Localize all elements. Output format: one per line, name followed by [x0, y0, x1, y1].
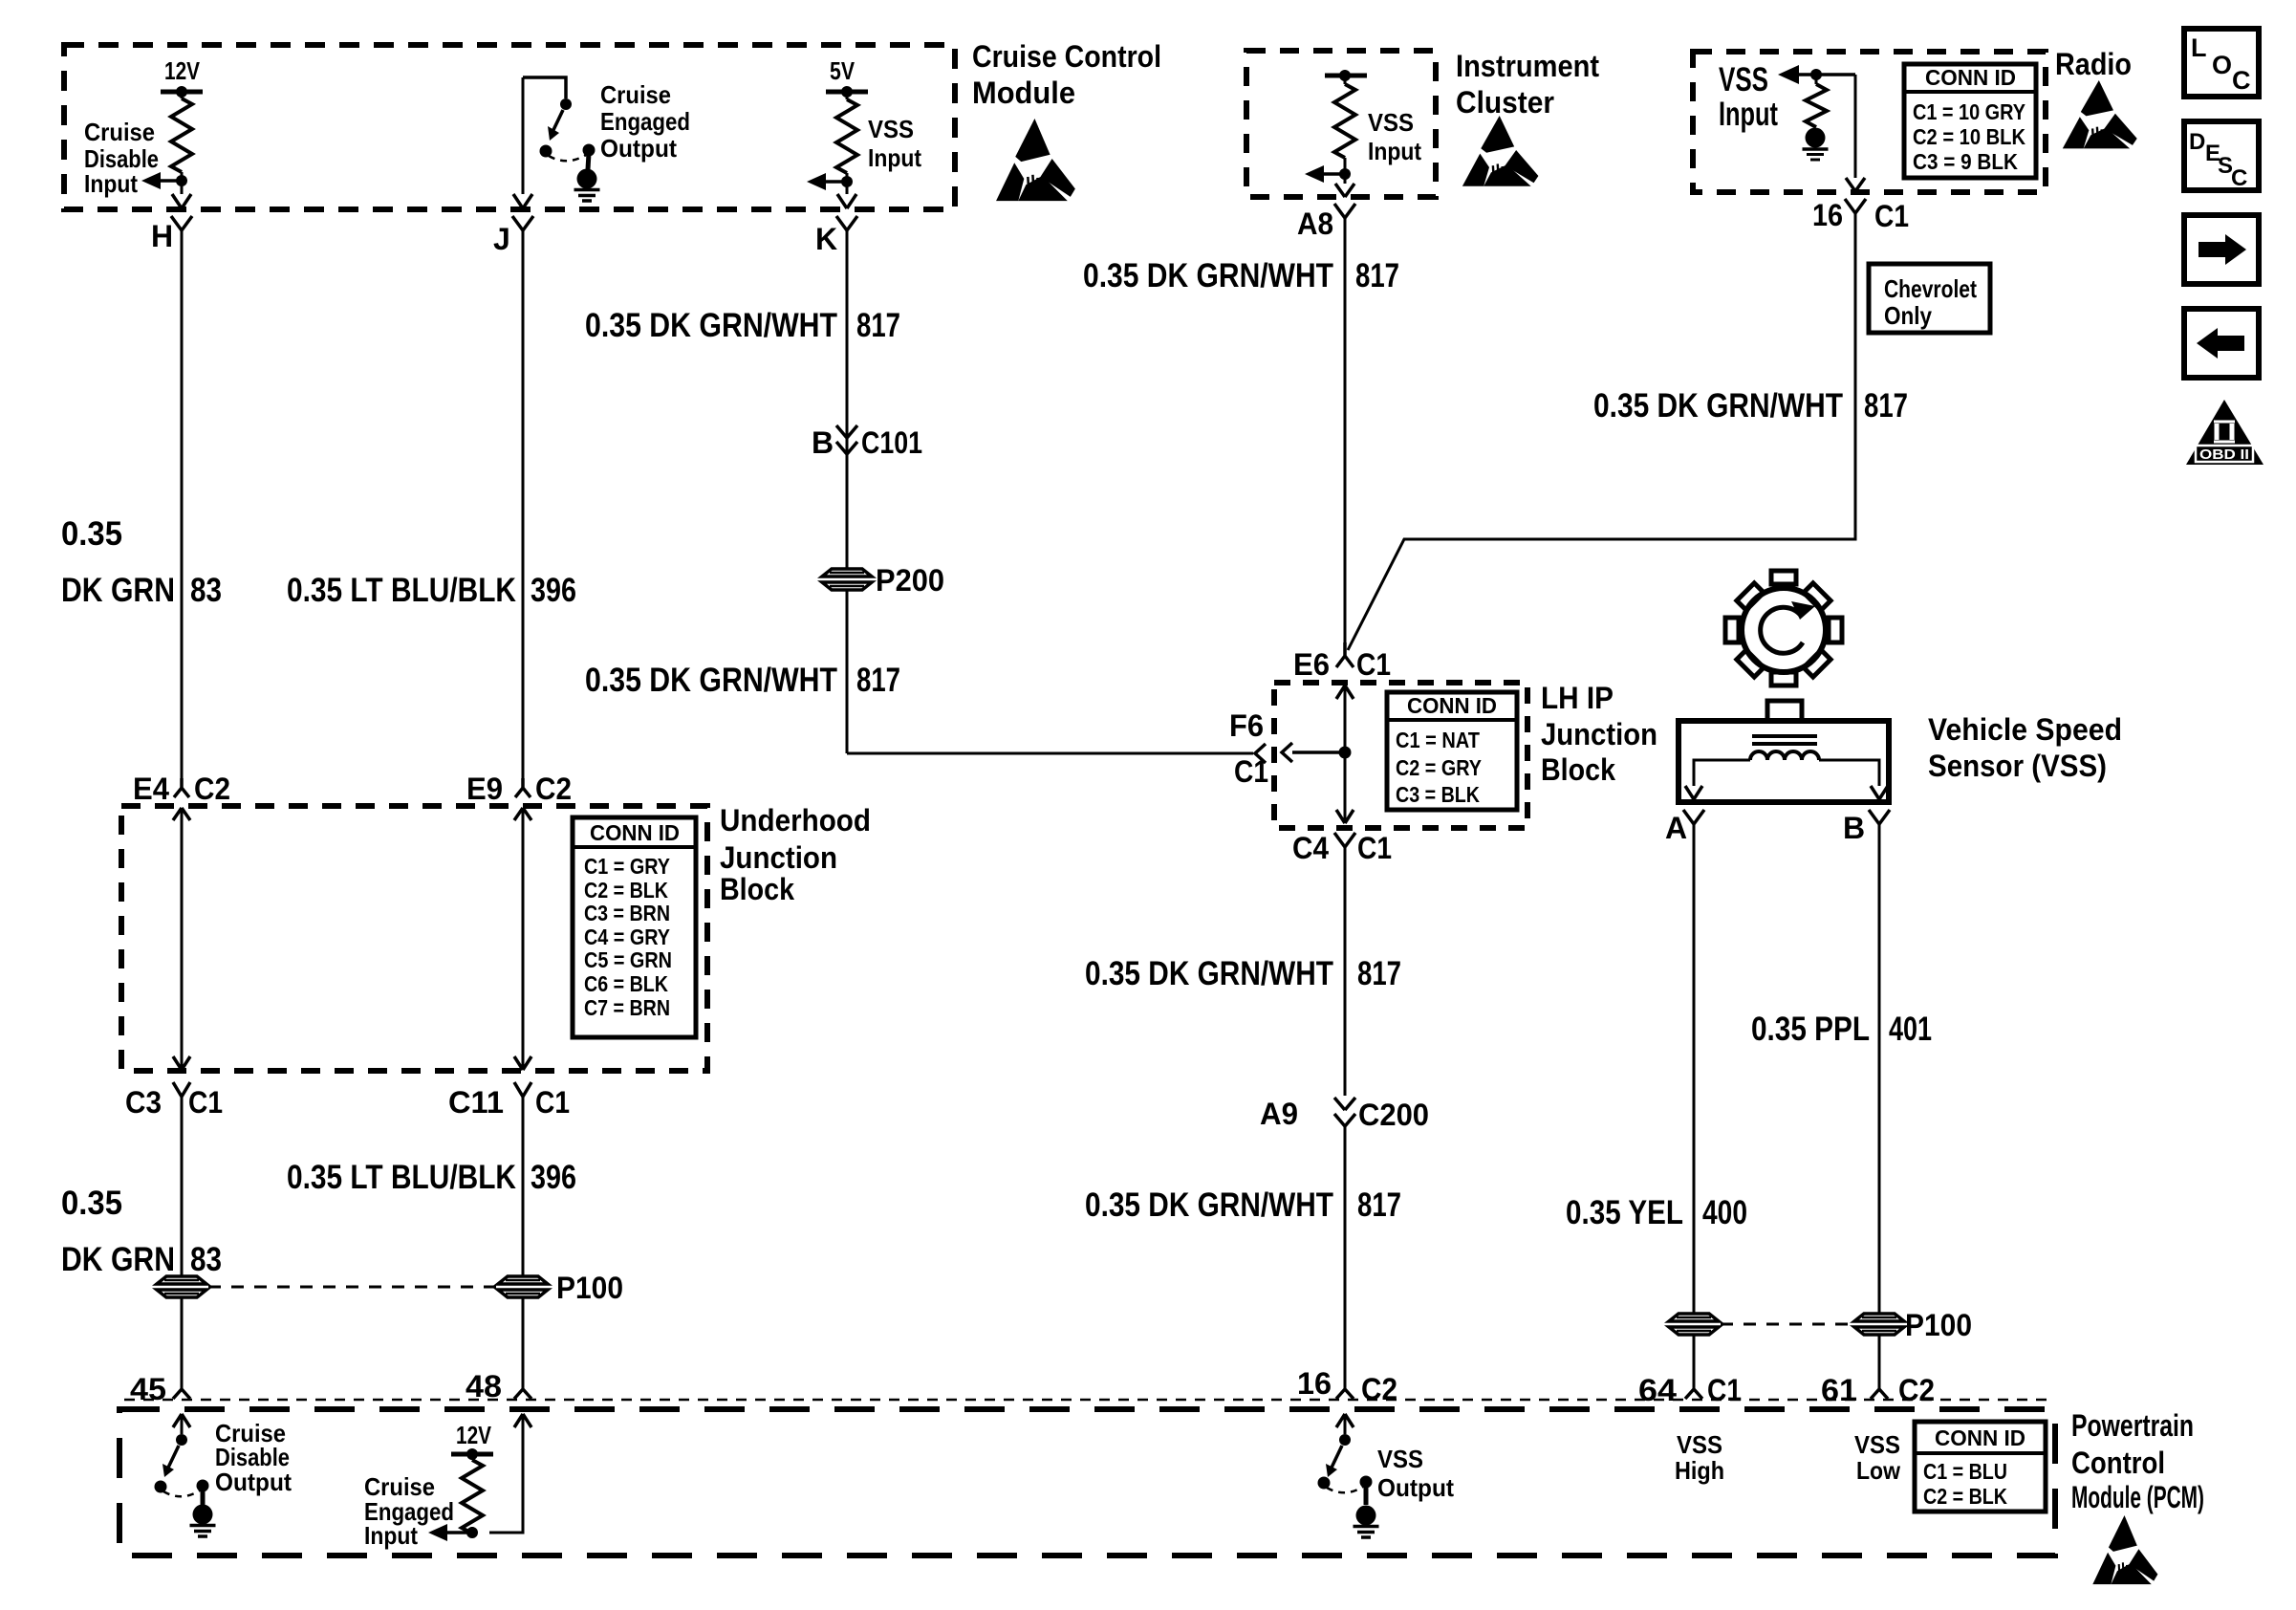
pin A8 exit arrow	[1335, 184, 1354, 197]
table CONN ID radio	[1904, 64, 2036, 178]
table CONN ID PCM	[1915, 1422, 2046, 1512]
splice P100 on B wire	[1854, 1308, 1972, 1342]
svg-text:0.35: 0.35	[61, 515, 122, 553]
svg-text:0.35 LT BLU/BLK: 0.35 LT BLU/BLK	[287, 572, 516, 609]
svg-text:C2: C2	[194, 772, 230, 806]
title Radio	[2055, 47, 2132, 81]
module Powertrain Control Module dashed box	[119, 1409, 2055, 1556]
label Cruise Engaged Input	[364, 1472, 454, 1550]
svg-text:Chevrolet: Chevrolet	[1884, 274, 1977, 303]
pin 64 C1 connector	[1638, 1373, 1742, 1407]
label 0.35 DK GRN/WHT 817 (K lower)	[585, 662, 900, 699]
label 0.35 DK GRN/WHT 817 (A8 branch)	[1083, 257, 1399, 294]
icon ESD PCM	[2092, 1515, 2157, 1584]
svg-text:CONN ID: CONN ID	[590, 820, 680, 845]
pin 48 connector	[466, 1369, 531, 1403]
wire H vertical run	[181, 230, 184, 778]
svg-text:Output: Output	[600, 134, 677, 163]
splice P100 on A wire	[1669, 1314, 1719, 1335]
wire K to F6 horizontal	[847, 752, 1253, 755]
svg-text:VSS: VSS	[1719, 61, 1768, 98]
splice P100 on H wire	[157, 1276, 206, 1297]
box Chevrolet Only	[1869, 264, 1990, 333]
connector E4 C2	[133, 772, 230, 806]
icon ESD instrument cluster	[1462, 116, 1539, 186]
svg-text:B: B	[1843, 811, 1865, 845]
label 0.35 DK GRN/WHT 817 (K upper)	[585, 307, 900, 344]
svg-text:C2 = 10 BLK: C2 = 10 BLK	[1913, 124, 2025, 149]
resistor Cruise Engaged Input	[462, 1454, 483, 1534]
svg-text:C1 = 10 GRY: C1 = 10 GRY	[1913, 99, 2025, 124]
wire J inside module	[513, 77, 532, 208]
svg-text:Radio: Radio	[2055, 47, 2132, 81]
wire LH IP interior arrow to F6	[1282, 743, 1345, 762]
icon LOC box	[2184, 29, 2259, 97]
connector A9 C200 inline	[1260, 1097, 1429, 1132]
label VSS High	[1675, 1430, 1724, 1485]
svg-text:396: 396	[531, 1159, 576, 1196]
pin 45 connector	[130, 1372, 190, 1406]
svg-text:VSS: VSS	[1854, 1430, 1900, 1459]
module Instrument Cluster dashed box	[1246, 51, 1436, 197]
svg-text:C3 = 9 BLK: C3 = 9 BLK	[1913, 149, 2018, 174]
svg-text:C2 = GRY: C2 = GRY	[1396, 755, 1482, 780]
connector E9 C2	[466, 772, 572, 806]
svg-text:Underhood: Underhood	[720, 803, 871, 838]
svg-text:Control: Control	[2071, 1446, 2165, 1480]
connector C4 C1	[1292, 831, 1392, 865]
svg-text:E4: E4	[133, 772, 169, 806]
label 0.35 PPL 401	[1751, 1011, 1932, 1048]
svg-text:C1 = BLU: C1 = BLU	[1923, 1459, 2007, 1484]
svg-text:C: C	[2232, 66, 2251, 95]
svg-text:C1: C1	[1234, 754, 1268, 789]
svg-text:0.35 PPL: 0.35 PPL	[1751, 1011, 1870, 1048]
node VSS Input junction (cluster)	[1305, 165, 1351, 183]
svg-text:CONN ID: CONN ID	[1925, 65, 2016, 90]
svg-text:16: 16	[1297, 1366, 1332, 1401]
svg-text:C2: C2	[535, 772, 572, 806]
resistor VSS Input pull-up (cruise)	[836, 92, 857, 194]
svg-text:C7 = BRN: C7 = BRN	[584, 995, 670, 1020]
svg-text:A8: A8	[1297, 207, 1333, 241]
svg-text:DK GRN: DK GRN	[61, 1241, 175, 1278]
wire P100 dashed link (left)	[208, 1286, 496, 1289]
svg-text:Output: Output	[215, 1468, 292, 1496]
label 12V supply	[161, 56, 203, 98]
svg-text:OBD II: OBD II	[2199, 446, 2249, 463]
label 0.35 DK GRN 83 (upper)	[61, 515, 222, 609]
svg-text:Block: Block	[1541, 752, 1615, 787]
svg-text:C2 = BLK: C2 = BLK	[1923, 1484, 2007, 1509]
svg-text:817: 817	[856, 307, 900, 344]
svg-text:Cruise: Cruise	[600, 80, 671, 109]
svg-text:Cruise Control: Cruise Control	[972, 39, 1161, 74]
title LH IP Junction Block	[1541, 681, 1657, 787]
label Cruise Engaged Output	[600, 80, 690, 163]
wire K vertical run	[846, 230, 849, 753]
svg-text:5V: 5V	[830, 56, 856, 85]
wire VSS A vertical run	[1693, 824, 1696, 1388]
title Instrument Cluster	[1456, 49, 1599, 120]
svg-text:12V: 12V	[456, 1421, 492, 1449]
svg-text:0.35 DK GRN/WHT: 0.35 DK GRN/WHT	[1085, 955, 1333, 992]
svg-text:VSS: VSS	[868, 115, 914, 143]
resistor VSS Input (cluster)	[1334, 76, 1355, 184]
ground VSS Output	[1354, 1506, 1379, 1538]
connector B C101 inline	[812, 425, 922, 460]
resistor radio VSS pulldown	[1806, 75, 1827, 127]
label VSS Input (radio)	[1719, 61, 1778, 133]
table CONN ID LH IP	[1387, 692, 1517, 810]
svg-text:401: 401	[1889, 1011, 1932, 1048]
label 0.35 DK GRN/WHT 817 (C4 branch)	[1085, 955, 1401, 992]
label 0.35 DK GRN 83 (lower)	[61, 1185, 222, 1278]
ground Cruise Engaged Output	[574, 169, 600, 202]
icon left arrow box	[2184, 309, 2259, 378]
module Underhood Junction Block dashed box	[121, 806, 707, 1071]
connector E6 C1	[1293, 642, 1391, 682]
pin H exit arrow	[172, 194, 191, 208]
wire 16 C2 vertical run	[1344, 1126, 1347, 1388]
svg-text:Engaged: Engaged	[600, 107, 690, 136]
svg-text:C5 = GRN: C5 = GRN	[584, 947, 672, 972]
svg-text:Input: Input	[84, 169, 138, 198]
svg-text:16: 16	[1812, 198, 1843, 232]
svg-text:A9: A9	[1260, 1097, 1298, 1131]
svg-text:0.35 YEL: 0.35 YEL	[1566, 1194, 1683, 1231]
svg-text:Block: Block	[720, 872, 794, 906]
wire C4 vertical run	[1344, 847, 1347, 1096]
svg-text:C2 = BLK: C2 = BLK	[584, 878, 668, 903]
title Vehicle Speed Sensor (VSS)	[1928, 712, 2122, 783]
svg-text:A: A	[1665, 811, 1687, 845]
svg-text:D: D	[2189, 129, 2205, 155]
svg-text:Instrument: Instrument	[1456, 49, 1599, 83]
wire J top segment	[523, 77, 566, 98]
svg-text:817: 817	[1355, 257, 1399, 294]
svg-text:VSS: VSS	[1677, 1430, 1722, 1459]
svg-text:C1 = NAT: C1 = NAT	[1396, 728, 1480, 752]
svg-text:Input: Input	[364, 1521, 418, 1550]
label VSS Input (cluster)	[1368, 108, 1421, 165]
svg-text:Junction: Junction	[720, 840, 837, 875]
svg-text:83: 83	[190, 1241, 222, 1278]
svg-text:E9: E9	[466, 772, 503, 806]
label VSS Output	[1377, 1445, 1454, 1502]
label 0.35 LT BLU/BLK 396 (lower)	[287, 1159, 576, 1196]
svg-text:C4 = GRY: C4 = GRY	[584, 925, 670, 949]
svg-text:Low: Low	[1856, 1456, 1901, 1485]
svg-text:C1: C1	[1357, 831, 1392, 865]
wire VSS B vertical run	[1878, 824, 1881, 1388]
svg-text:C3 = BRN: C3 = BRN	[584, 901, 670, 925]
svg-text:O: O	[2212, 51, 2232, 79]
svg-text:B: B	[812, 425, 834, 460]
pin A connector	[1665, 810, 1704, 845]
pin 16 C2 connector (PCM)	[1297, 1366, 1397, 1406]
pin H connector	[151, 216, 192, 253]
svg-text:Junction: Junction	[1541, 717, 1657, 751]
title Underhood Junction Block	[720, 803, 871, 906]
svg-text:Output: Output	[1377, 1473, 1454, 1502]
svg-text:C200: C200	[1358, 1098, 1429, 1132]
svg-text:F6: F6	[1229, 708, 1264, 743]
wire A8 vertical run	[1344, 218, 1347, 642]
node Cruise Disable Input junction	[141, 172, 187, 189]
svg-text:Input: Input	[1368, 137, 1421, 165]
wire J lower run	[522, 1097, 525, 1388]
svg-text:L: L	[2191, 33, 2207, 62]
title Powertrain Control Module (PCM)	[2071, 1408, 2204, 1514]
wire 48 entry arrow	[489, 1414, 531, 1533]
svg-text:396: 396	[531, 572, 576, 609]
ground Cruise Disable Output	[190, 1505, 216, 1537]
node Cruise Engaged Input junction	[428, 1524, 478, 1541]
wire PCM connector face dashed line	[124, 1399, 2053, 1402]
label 12V supply (PCM)	[451, 1421, 493, 1460]
svg-text:C4: C4	[1292, 831, 1329, 865]
svg-text:C3 = BLK: C3 = BLK	[1396, 782, 1480, 807]
svg-text:C101: C101	[861, 425, 922, 460]
svg-text:0.35: 0.35	[61, 1185, 122, 1222]
label 5V supply	[826, 56, 868, 98]
connector F6 C1 female half	[1229, 708, 1268, 789]
title Cruise Control Module	[972, 39, 1161, 110]
svg-text:C2: C2	[1898, 1373, 1935, 1407]
svg-text:Input: Input	[868, 143, 921, 172]
svg-text:CONN ID: CONN ID	[1407, 693, 1497, 718]
svg-text:P100: P100	[556, 1271, 623, 1305]
node LH IP junction dot	[1339, 747, 1352, 759]
svg-text:Module (PCM): Module (PCM)	[2071, 1480, 2204, 1514]
svg-text:400: 400	[1702, 1194, 1747, 1231]
svg-text:48: 48	[466, 1369, 502, 1403]
svg-text:P100: P100	[1905, 1308, 1972, 1342]
pin K connector	[815, 216, 857, 256]
label VSS Input (cruise)	[868, 115, 921, 172]
svg-text:817: 817	[1357, 955, 1401, 992]
wire H lower run	[181, 1097, 184, 1388]
splice P100 on J wire	[498, 1271, 623, 1305]
switch Cruise Disable Output	[155, 1414, 209, 1505]
pin A8 connector	[1297, 204, 1355, 241]
svg-text:P200: P200	[876, 563, 944, 598]
svg-text:E6: E6	[1293, 647, 1330, 682]
svg-text:0.35 DK GRN/WHT: 0.35 DK GRN/WHT	[1083, 257, 1333, 294]
svg-text:Input: Input	[1719, 96, 1778, 133]
label Cruise Disable Output	[215, 1419, 292, 1496]
svg-text:C1 = GRY: C1 = GRY	[584, 854, 670, 879]
module Radio dashed box	[1693, 52, 2046, 192]
svg-text:VSS: VSS	[1368, 108, 1414, 137]
wire Underhood interior left	[173, 808, 190, 1070]
svg-text:0.35 DK GRN/WHT: 0.35 DK GRN/WHT	[1085, 1186, 1333, 1224]
wire J vertical run	[522, 230, 525, 778]
label 0.35 YEL 400	[1566, 1194, 1747, 1231]
svg-text:45: 45	[130, 1372, 166, 1406]
node VSS Input junction (cruise)	[807, 173, 853, 190]
resistor Cruise Disable pull-up	[171, 92, 192, 194]
module LH IP Junction Block dashed box	[1274, 683, 1527, 828]
pin 16 C1 connector (radio)	[1812, 198, 1909, 233]
table CONN ID Underhood	[573, 817, 696, 1037]
svg-text:0.35 DK GRN/WHT: 0.35 DK GRN/WHT	[585, 662, 837, 699]
connector C11 C1	[448, 1082, 570, 1120]
ground radio	[1803, 128, 1829, 161]
svg-text:817: 817	[1357, 1186, 1401, 1224]
svg-text:83: 83	[190, 572, 222, 609]
label 0.35 LT BLU/BLK 396 (upper)	[287, 572, 576, 609]
svg-text:J: J	[493, 222, 510, 256]
svg-text:Module: Module	[972, 76, 1075, 110]
svg-text:LH IP: LH IP	[1541, 681, 1614, 715]
wire Underhood interior right	[514, 808, 531, 1070]
svg-text:C1: C1	[188, 1085, 223, 1120]
svg-text:DK GRN: DK GRN	[61, 572, 175, 609]
svg-text:817: 817	[1864, 387, 1908, 424]
svg-text:12V: 12V	[164, 56, 201, 85]
label Cruise Disable Input	[84, 118, 159, 198]
svg-text:64: 64	[1638, 1373, 1677, 1407]
svg-text:Vehicle Speed: Vehicle Speed	[1928, 712, 2122, 747]
module Cruise Control Module dashed box	[64, 45, 955, 209]
icon ESD cruise module	[996, 119, 1075, 201]
icon ESD radio	[2063, 80, 2137, 148]
icon right arrow box	[2184, 215, 2259, 284]
wire radio vertical and jog to E6	[1348, 213, 1855, 650]
wire P100 dashed link (right)	[1721, 1323, 1852, 1326]
svg-text:C: C	[2231, 165, 2247, 191]
svg-text:Cruise: Cruise	[84, 118, 155, 146]
svg-text:0.35 DK GRN/WHT: 0.35 DK GRN/WHT	[585, 307, 837, 344]
svg-text:C1: C1	[1707, 1373, 1742, 1407]
pin 61 C2 connector	[1821, 1373, 1935, 1407]
svg-text:C3: C3	[125, 1085, 162, 1120]
svg-text:Only: Only	[1884, 301, 1932, 330]
supply bar instrument cluster	[1325, 70, 1367, 81]
icon gear VSS	[1725, 571, 1842, 685]
label 0.35 DK GRN/WHT 817 (PCM 16 branch)	[1085, 1186, 1401, 1224]
svg-text:High: High	[1675, 1456, 1724, 1485]
svg-text:H: H	[151, 219, 173, 253]
svg-text:Powertrain: Powertrain	[2071, 1408, 2194, 1443]
switch VSS Output	[1318, 1414, 1373, 1505]
svg-text:Cluster: Cluster	[1456, 85, 1554, 120]
pin B connector	[1843, 810, 1890, 845]
svg-text:C1: C1	[535, 1085, 570, 1120]
label 0.35 DK GRN/WHT 817 (radio branch)	[1593, 387, 1908, 424]
splice P200	[822, 563, 944, 598]
component Vehicle Speed Sensor body	[1679, 701, 1889, 802]
svg-text:0.35 LT BLU/BLK: 0.35 LT BLU/BLK	[287, 1159, 516, 1196]
svg-text:VSS: VSS	[1377, 1445, 1423, 1473]
wire LH IP interior vertical	[1336, 685, 1354, 823]
svg-text:C1: C1	[1356, 647, 1391, 682]
svg-text:K: K	[815, 222, 837, 256]
svg-text:Sensor (VSS): Sensor (VSS)	[1928, 749, 2107, 783]
svg-text:0.35 DK GRN/WHT: 0.35 DK GRN/WHT	[1593, 387, 1843, 424]
pin K exit arrow	[837, 194, 856, 208]
icon DESC box	[2184, 121, 2259, 191]
pin J connector	[493, 216, 533, 256]
label VSS Low	[1854, 1430, 1901, 1485]
svg-text:C6 = BLK: C6 = BLK	[584, 971, 668, 996]
connector C3 C1	[125, 1082, 223, 1120]
switch Cruise Engaged Output	[540, 98, 596, 169]
node VSS Input arrow (radio)	[1778, 65, 1855, 84]
wire radio 16 C1 inside	[1846, 75, 1865, 191]
svg-text:C2: C2	[1361, 1372, 1397, 1406]
svg-text:61: 61	[1821, 1373, 1857, 1407]
svg-text:C1: C1	[1874, 199, 1909, 233]
svg-text:CONN ID: CONN ID	[1935, 1425, 2025, 1450]
icon OBD II triangle	[2186, 400, 2264, 465]
svg-text:C11: C11	[448, 1085, 504, 1120]
svg-text:817: 817	[856, 662, 900, 699]
